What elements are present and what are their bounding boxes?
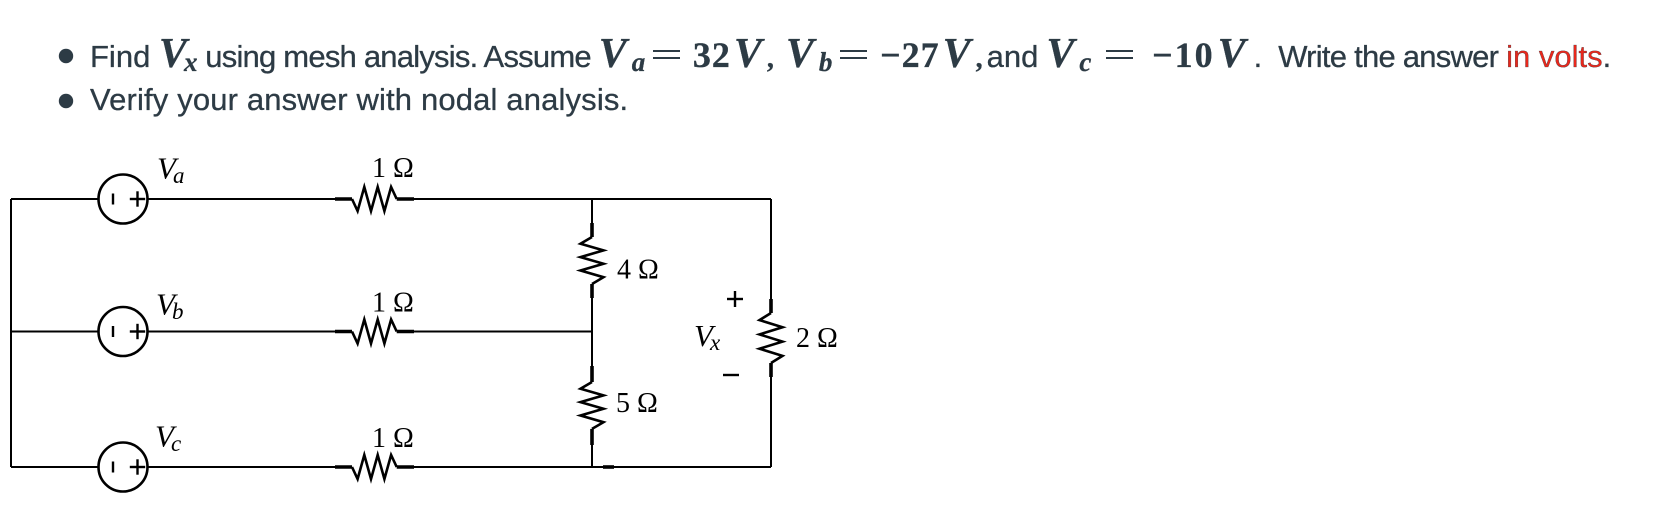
wire source Va to R1	[148, 198, 336, 200]
wire R3 to bottom-right corner	[414, 466, 771, 468]
svg-text:5 Ω: 5 Ω	[616, 388, 658, 419]
bullet list text	[90, 32, 1611, 81]
bullet 1	[59, 49, 73, 63]
branch wire top node to 4ohm	[591, 199, 593, 223]
resistor R2 1ohm (middle)	[335, 320, 414, 344]
bottom rail wire left of source Vc	[11, 466, 99, 468]
branch wire 4ohm to middle node	[591, 298, 593, 332]
wire source Vb to R2	[148, 331, 336, 333]
svg-text:2 Ω: 2 Ω	[796, 323, 838, 354]
resistor 4ohm (vertical)	[581, 223, 604, 298]
svg-text:b: b	[172, 299, 184, 324]
branch wire 5ohm to bottom node	[591, 445, 593, 467]
top rail wire left of source Va	[11, 198, 99, 200]
voltage source Va	[99, 175, 148, 224]
right rail wire upper	[770, 199, 772, 299]
resistor R1 1ohm (top)	[335, 187, 414, 211]
minus sign of Vx polarity	[723, 374, 739, 376]
right rail wire lower	[770, 377, 772, 467]
svg-text:1 Ω: 1 Ω	[372, 423, 414, 454]
svg-text:x: x	[709, 330, 721, 355]
resistor 5ohm (vertical)	[581, 366, 604, 445]
svg-text:a: a	[173, 163, 185, 188]
resistor 2ohm (vertical right)	[760, 299, 783, 377]
wire R2 to center node	[414, 331, 592, 333]
svg-text:4 Ω: 4 Ω	[617, 255, 659, 286]
wire R1 to top-right corner	[414, 198, 771, 200]
voltage source Vb	[99, 307, 148, 356]
middle rail wire left of source Vb	[11, 331, 99, 333]
voltage source Vc	[99, 443, 148, 492]
wire source Vc to R3	[148, 466, 336, 468]
svg-text:1 Ω: 1 Ω	[372, 153, 414, 184]
plus sign of Vx polarity	[727, 291, 743, 307]
resistor R3 1ohm (bottom)	[335, 455, 414, 479]
thick joint segment on bottom wire at center node	[603, 465, 614, 469]
bullet 2	[59, 94, 73, 108]
svg-text:1 Ω: 1 Ω	[372, 288, 414, 319]
left rail wire	[10, 199, 12, 467]
branch wire middle node to 5ohm	[591, 332, 593, 367]
svg-text:c: c	[171, 431, 181, 456]
